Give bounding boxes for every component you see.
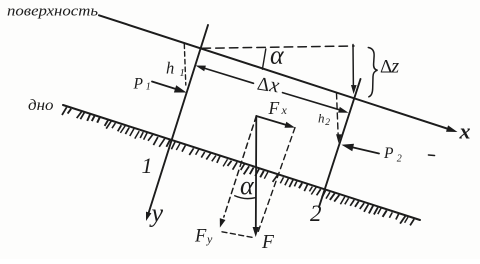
svg-text:P: P [133, 76, 144, 93]
svg-text:h: h [318, 111, 325, 126]
svg-text:y: y [149, 199, 164, 228]
svg-text:2: 2 [325, 118, 330, 128]
svg-text:F: F [194, 227, 207, 247]
svg-text:z: z [391, 56, 400, 77]
svg-text:x: x [281, 103, 288, 117]
svg-text:2: 2 [310, 201, 322, 226]
svg-text:дно: дно [28, 95, 54, 114]
svg-text:1: 1 [142, 153, 153, 178]
svg-text:поверхность: поверхность [7, 3, 98, 19]
svg-text:Δ: Δ [380, 57, 392, 78]
svg-text:2: 2 [397, 153, 402, 164]
svg-text:y: y [206, 232, 213, 246]
svg-text:F: F [268, 98, 280, 118]
svg-text:x: x [459, 119, 471, 144]
svg-text:α: α [240, 171, 255, 200]
svg-text:P: P [383, 145, 394, 162]
svg-text:1: 1 [146, 81, 151, 92]
svg-text:1: 1 [180, 68, 185, 79]
svg-text:F: F [261, 232, 275, 253]
svg-text:α: α [270, 41, 285, 70]
svg-text:h: h [166, 59, 174, 78]
